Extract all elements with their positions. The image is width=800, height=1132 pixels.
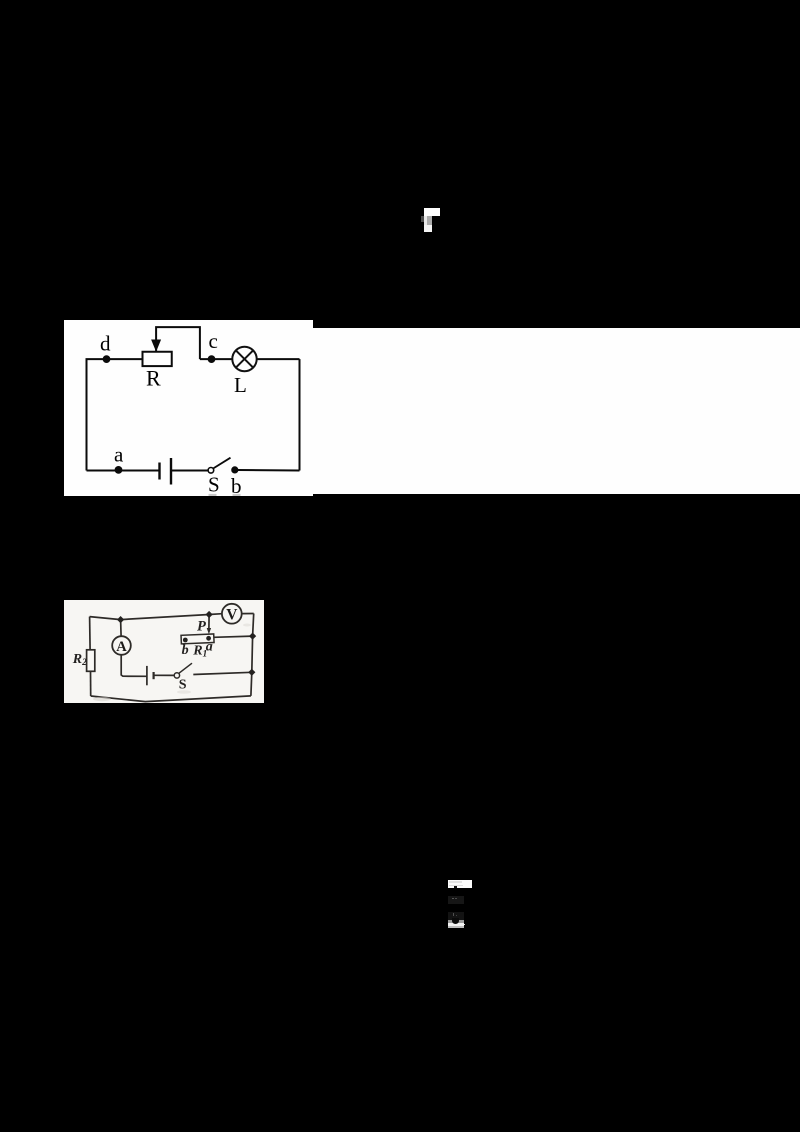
thumbnail mark: dark block 1 (448, 896, 464, 904)
thumbnail mark: dark block 2 (448, 912, 464, 920)
partially visible glyph fragment (gamma shape) top center (424, 208, 440, 216)
svg-text:A: A (116, 639, 127, 655)
svg-text:P: P (197, 618, 206, 634)
battery short plate (152, 672, 154, 679)
node dot c (207, 355, 215, 363)
resistor R body (142, 351, 171, 365)
wire: c node to lamp to right (199, 358, 232, 360)
svg-text:b: b (231, 474, 242, 496)
svg-text:d: d (100, 331, 111, 355)
svg-text:L: L (234, 373, 247, 397)
wire: right vertical (251, 613, 254, 695)
junction diamond right upper (249, 632, 256, 639)
svg-text:V: V (226, 606, 238, 623)
switch pivot circle (174, 672, 179, 677)
switch lever (179, 663, 192, 673)
svg-text:b: b (181, 643, 188, 658)
wire: P arrow stem (208, 614, 210, 628)
svg-text:a: a (114, 442, 124, 466)
junction diamond at P top (205, 611, 212, 618)
switch S pivot circle (208, 467, 214, 473)
slider arrow into R (151, 339, 161, 351)
wire: d to resistor R (85, 358, 142, 360)
wire: battery to switch (153, 674, 174, 676)
scan smudge right of V (243, 623, 251, 626)
node dot a (114, 466, 122, 474)
thumbnail mark: black blob (452, 918, 459, 924)
figure 2: scanned circuit panel (64, 600, 265, 703)
wire: switch to right (193, 672, 252, 674)
scan residue under b (232, 493, 240, 495)
wire: R1 right to right vertical (214, 636, 253, 637)
resistor R2 body (86, 650, 94, 672)
svg-text:S: S (208, 472, 220, 496)
wire: slider top horizontal (156, 327, 200, 359)
switch lever (213, 457, 230, 468)
svg-text:R: R (146, 365, 161, 390)
battery cell: short plate (158, 462, 160, 479)
svg-text:R2: R2 (71, 652, 86, 667)
voltmeter V (222, 604, 242, 624)
figure 1: white panel with circuit (64, 320, 313, 496)
battery cell: long plate (169, 458, 171, 485)
battery long plate (146, 666, 148, 685)
wire: right vertical (298, 359, 300, 470)
junction diamond right lower (248, 668, 255, 675)
white band row (document line) (311, 328, 800, 495)
scan smudge lower-left (93, 697, 111, 701)
node dot b (231, 466, 238, 473)
lamp L circle with X (232, 346, 256, 370)
wire: ammeter branch (119, 619, 122, 636)
P arrowhead (206, 628, 210, 634)
rheostat contact dot a-end (206, 636, 211, 641)
node dot d (102, 355, 110, 363)
wire: left vertical d-a (85, 359, 87, 470)
thumbnail mark: white equation strip (448, 880, 472, 888)
wire: top run (89, 614, 209, 619)
svg-text:a: a (205, 639, 212, 654)
rheostat R1 body (181, 634, 214, 644)
thumbnail mark: gray/white strip (448, 920, 464, 924)
rheostat contact dot b-end (183, 637, 188, 642)
svg-text:c: c (208, 329, 217, 353)
junction diamond at A top (117, 616, 124, 623)
wire: left vertical (88, 616, 91, 649)
wire: bottom bow (90, 696, 250, 702)
scan residue under S (208, 493, 216, 495)
wire: bottom row (86, 469, 159, 471)
ammeter A (112, 636, 131, 655)
scan smudge under switch (177, 690, 191, 694)
